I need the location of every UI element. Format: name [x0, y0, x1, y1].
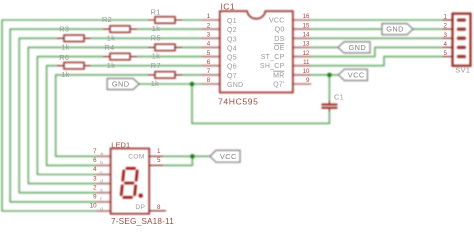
IC1 pin 8 stub	[202, 83, 220, 85]
wire IC pin10 MR to VCC flag	[311, 74, 338, 76]
svg-text:GND: GND	[227, 82, 243, 89]
svg-text:Q4: Q4	[227, 45, 237, 52]
svg-text:C1: C1	[334, 93, 344, 102]
wire IC pin1 to resistor	[182, 19, 202, 21]
wire IC pin6 to resistor	[91, 65, 202, 67]
LED1 pin 7 segment a stub	[97, 155, 111, 157]
IC1 pin 2 stub	[202, 28, 220, 30]
svg-text:6: 6	[93, 157, 97, 164]
svg-text:R1: R1	[151, 8, 161, 17]
wire LED COM pin1 to VCC flag	[163, 155, 210, 157]
IC1 pin 7 stub	[202, 74, 220, 76]
resistor R6 1k	[57, 65, 91, 67]
svg-text:74HC595: 74HC595	[218, 96, 259, 106]
wire GND flag to IC pin8	[139, 83, 201, 85]
IC1 pin 6 stub	[202, 65, 220, 67]
svg-text:1: 1	[444, 14, 448, 21]
ground GND flag left	[107, 79, 139, 90]
wire SH_CP net IC pin11 to SV1 pin5	[311, 57, 442, 66]
IC1 pin 15 stub	[293, 28, 311, 30]
svg-text:Q7: Q7	[227, 73, 237, 80]
wire GND flag to SV1 pin2	[413, 28, 443, 30]
IC1 pin 9 stub	[293, 83, 311, 85]
svg-text:1k: 1k	[152, 24, 161, 33]
wire IC pin13 OE to GND flag	[311, 46, 338, 48]
LED1 digit 8 segments and decimal point	[121, 168, 143, 197]
LED1 pin 3 segment d stub	[97, 183, 111, 185]
capacitor C1	[328, 100, 330, 111]
svg-text:5: 5	[207, 50, 211, 57]
svg-text:Q6: Q6	[227, 64, 237, 71]
svg-text:3: 3	[93, 175, 97, 182]
wire IC pin3 to resistor	[91, 37, 202, 39]
svg-text:1k: 1k	[107, 61, 116, 70]
LED1 pin 9 segment f stub	[97, 201, 111, 203]
LED1 pin 6 segment b stub	[97, 164, 111, 166]
svg-text:Q1: Q1	[227, 18, 237, 25]
svg-text:12: 12	[303, 50, 310, 57]
wire IC pin7 to resistor	[182, 74, 202, 76]
wire LED pin5 to junction	[163, 156, 192, 165]
svg-text:VCC: VCC	[348, 71, 365, 80]
IC1 pin 11 stub	[293, 65, 311, 67]
resistor R1 1k	[148, 19, 182, 21]
svg-text:14: 14	[303, 32, 310, 39]
LED1 pin 2 segment e stub	[97, 192, 111, 194]
svg-text:2: 2	[207, 22, 211, 29]
svg-text:16: 16	[303, 13, 310, 20]
svg-text:4: 4	[93, 166, 97, 173]
svg-text:OE: OE	[274, 45, 285, 52]
wire resistor to LED segment b	[47, 66, 97, 166]
LED1 pin 5 COM stub	[149, 164, 163, 166]
svg-text:R5: R5	[151, 34, 161, 43]
svg-text:d: d	[100, 178, 103, 184]
SV1 pin 2	[443, 28, 454, 30]
svg-text:1k: 1k	[61, 43, 70, 52]
IC1 pin 3 stub	[202, 37, 220, 39]
svg-text:10: 10	[90, 203, 97, 210]
svg-text:DS: DS	[274, 36, 284, 43]
svg-text:DP: DP	[135, 204, 145, 211]
svg-text:SV1: SV1	[455, 66, 470, 75]
LED display LED1 body	[111, 149, 150, 214]
wire IC pin4 to resistor	[182, 46, 202, 48]
svg-text:9: 9	[93, 194, 97, 201]
LED1 pin 10 segment g stub	[97, 210, 111, 212]
SV1 pin 1	[443, 19, 454, 21]
svg-text:Q2: Q2	[227, 27, 237, 34]
SV1 pin 5	[443, 56, 454, 58]
svg-text:1: 1	[207, 13, 211, 20]
svg-text:Q7': Q7'	[273, 82, 284, 89]
node junction row8	[190, 82, 194, 86]
svg-text:Q3: Q3	[227, 36, 237, 43]
resistor R5 1k	[148, 46, 182, 48]
svg-text:2: 2	[93, 184, 97, 191]
svg-text:7-SEG_SA18-11: 7-SEG_SA18-11	[111, 217, 174, 226]
svg-text:LED1: LED1	[111, 140, 130, 149]
wire resistor to LED segment c	[37, 57, 103, 175]
svg-text:4: 4	[207, 41, 211, 48]
LED1 pin 8 DP stub	[149, 210, 166, 212]
ground GND flag right-top	[382, 24, 413, 35]
IC1 pin 5 stub	[202, 56, 220, 58]
svg-text:10: 10	[303, 68, 310, 75]
power VCC flag right	[338, 69, 367, 80]
wire IC pin2 to resistor	[137, 28, 202, 30]
connector SV1 body	[453, 14, 471, 66]
svg-text:SH_CP: SH_CP	[260, 63, 285, 70]
svg-text:a: a	[100, 152, 103, 157]
ground GND flag mid	[338, 42, 370, 53]
wire resistor to LED segment e	[19, 38, 96, 192]
svg-text:1k: 1k	[151, 79, 160, 88]
svg-text:e: e	[100, 189, 103, 194]
svg-text:9: 9	[306, 77, 310, 84]
svg-text:R4: R4	[105, 43, 115, 52]
svg-text:3: 3	[444, 32, 448, 39]
resistor R7 1k	[148, 74, 182, 76]
svg-text:VCC: VCC	[220, 152, 237, 161]
wire resistor to LED segment g	[2, 20, 148, 211]
svg-text:5: 5	[444, 50, 448, 57]
resistor R3 1k	[57, 37, 91, 39]
svg-text:2: 2	[444, 23, 448, 30]
svg-text:f: f	[100, 197, 102, 203]
svg-text:VCC: VCC	[269, 18, 285, 25]
IC1 pin 4 stub	[202, 46, 220, 48]
svg-text:3: 3	[207, 32, 211, 39]
power VCC flag at LED	[210, 150, 240, 162]
wire junction row8 to C1 bottom	[192, 84, 329, 123]
svg-text:R2: R2	[102, 15, 112, 24]
wire resistor to LED segment f	[10, 29, 103, 202]
svg-text:8: 8	[157, 204, 161, 211]
SV1 pin 3	[443, 37, 454, 39]
svg-text:1: 1	[157, 148, 161, 155]
LED1 pin 1 COM stub	[149, 155, 163, 157]
resistor R4 1k	[103, 56, 137, 58]
wire resistor to LED segment d	[28, 47, 148, 183]
wire DS net IC pin14 to SV1 pin3	[311, 37, 442, 39]
LED1 pin 4 segment c stub	[97, 174, 111, 176]
svg-text:11: 11	[303, 59, 310, 66]
IC1 pin 16 stub	[293, 19, 311, 21]
svg-text:7: 7	[207, 68, 211, 75]
op-amp U1 - IC1 74HC595 body outline	[220, 11, 293, 92]
wire ST_CP net IC pin12 to SV1 pin4	[311, 47, 442, 56]
IC1 pin 10 stub	[293, 74, 311, 76]
svg-text:R6: R6	[59, 53, 69, 62]
wire IC pin15 to GND flag	[311, 28, 382, 30]
svg-text:Q0: Q0	[275, 27, 285, 34]
svg-text:8: 8	[207, 77, 211, 84]
IC1 pin 12 stub	[293, 56, 311, 58]
wire resistor to LED segment a	[56, 75, 148, 156]
svg-text:5: 5	[157, 157, 161, 164]
svg-text:GND: GND	[348, 43, 366, 52]
IC1 pin 13 stub	[293, 46, 311, 48]
svg-text:1k: 1k	[152, 52, 161, 61]
svg-text:R3: R3	[59, 25, 69, 34]
resistor R2 1k	[103, 28, 137, 30]
svg-text:6: 6	[207, 59, 211, 66]
svg-text:7: 7	[93, 148, 97, 155]
svg-text:1k: 1k	[61, 70, 70, 79]
svg-text:ST_CP: ST_CP	[261, 54, 285, 61]
svg-text:IC1: IC1	[221, 1, 236, 11]
svg-text:4: 4	[444, 41, 448, 48]
svg-text:GND: GND	[386, 25, 404, 34]
svg-text:COM: COM	[128, 153, 145, 160]
svg-text:GND: GND	[112, 80, 130, 89]
svg-text:b: b	[100, 160, 103, 166]
svg-text:g: g	[100, 207, 103, 212]
svg-text:Q5: Q5	[227, 55, 237, 62]
svg-text:MR: MR	[273, 72, 284, 79]
svg-text:15: 15	[303, 22, 310, 29]
svg-text:c: c	[100, 170, 103, 175]
IC1 pin 14 stub	[293, 37, 311, 39]
node junction LED COM	[190, 154, 194, 158]
SV1 pin 4	[443, 46, 454, 48]
svg-text:1k: 1k	[107, 33, 116, 42]
wire IC pin5 to resistor	[137, 56, 202, 58]
svg-text:R7: R7	[151, 61, 161, 70]
svg-text:13: 13	[303, 41, 310, 48]
wire junction to C1 top	[328, 75, 330, 101]
wire VCC net IC pin16 to SV1 pin1	[311, 19, 442, 21]
IC1 pin 1 stub	[202, 19, 220, 21]
node junction VCC C1	[327, 73, 331, 77]
